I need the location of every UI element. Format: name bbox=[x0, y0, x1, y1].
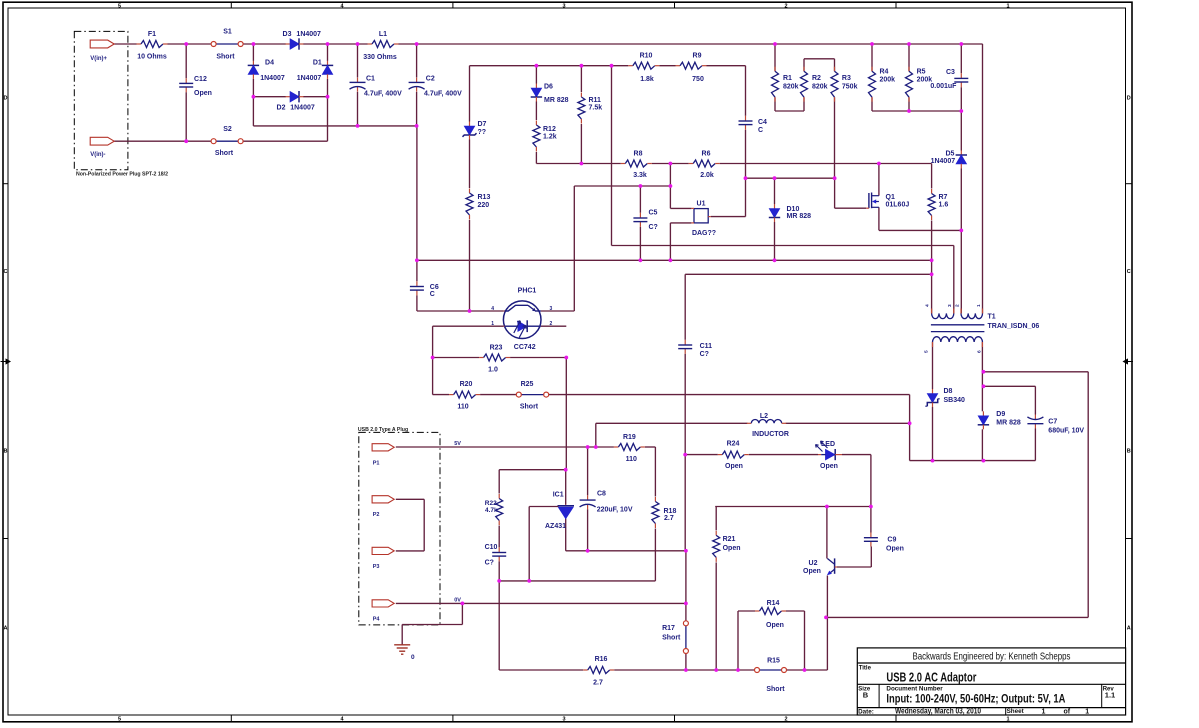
zone tick bbox=[3, 183, 8, 185]
svg-text:C12: C12 bbox=[194, 76, 207, 83]
svg-text:R5: R5 bbox=[917, 69, 926, 76]
transistor Q1 MOSFET bbox=[866, 193, 879, 209]
svg-text:R9: R9 bbox=[693, 53, 702, 60]
svg-text:Short: Short bbox=[215, 150, 234, 157]
wire bbox=[401, 625, 403, 645]
svg-text:U2: U2 bbox=[809, 560, 818, 567]
wire bbox=[327, 44, 329, 61]
svg-text:A: A bbox=[4, 626, 8, 632]
svg-text:110: 110 bbox=[457, 404, 468, 411]
svg-text:R23: R23 bbox=[490, 345, 503, 352]
svg-text:1N4007: 1N4007 bbox=[296, 31, 321, 38]
svg-text:R6: R6 bbox=[702, 150, 711, 157]
svg-text:Open: Open bbox=[886, 546, 904, 553]
plug pin V(in)+ bbox=[90, 40, 114, 48]
wire bbox=[499, 669, 583, 671]
junction bbox=[907, 109, 911, 113]
svg-text:1N4007: 1N4007 bbox=[290, 105, 315, 112]
wire bbox=[470, 65, 629, 67]
svg-text:Title: Title bbox=[859, 666, 872, 672]
svg-text:Open: Open bbox=[723, 545, 741, 552]
junction bbox=[825, 505, 829, 509]
wire bbox=[541, 310, 575, 312]
svg-text:C?: C? bbox=[649, 224, 658, 231]
svg-text:220uF, 10V: 220uF, 10V bbox=[597, 507, 633, 514]
junction bbox=[684, 602, 688, 606]
optocoupler PHC1 bbox=[503, 301, 541, 339]
svg-text:5: 5 bbox=[118, 3, 121, 9]
switch/short S2 bbox=[211, 139, 243, 144]
wire bbox=[243, 140, 327, 142]
resistor R18 bbox=[652, 497, 659, 528]
wire bbox=[499, 469, 566, 471]
svg-text:C: C bbox=[758, 127, 763, 134]
resistor R13 bbox=[466, 189, 473, 220]
schottky diode D8 bbox=[925, 389, 939, 407]
junction bbox=[527, 579, 531, 583]
capacitor C1 bbox=[350, 78, 366, 92]
svg-text:USB 2.0 AC Adaptor: USB 2.0 AC Adaptor bbox=[886, 670, 976, 684]
svg-text:4.7uF, 400V: 4.7uF, 400V bbox=[364, 91, 402, 98]
junction bbox=[580, 162, 584, 166]
wire bbox=[908, 97, 910, 111]
wire bbox=[433, 357, 480, 359]
wire bbox=[396, 550, 424, 552]
wire bbox=[871, 97, 873, 111]
svg-text:3: 3 bbox=[947, 304, 953, 307]
svg-text:Document Number: Document Number bbox=[886, 685, 943, 692]
wire bbox=[909, 395, 911, 461]
wire bbox=[535, 102, 537, 121]
svg-text:Open: Open bbox=[194, 90, 212, 97]
wire bbox=[684, 274, 686, 340]
svg-text:R24: R24 bbox=[727, 441, 740, 448]
wire bbox=[981, 342, 983, 411]
svg-text:Wednesday, March 03, 2010: Wednesday, March 03, 2010 bbox=[895, 706, 982, 715]
svg-text:T1: T1 bbox=[988, 314, 996, 321]
svg-text:R20: R20 bbox=[460, 381, 473, 388]
wire bbox=[931, 164, 933, 189]
wire bbox=[499, 580, 655, 582]
junction bbox=[744, 176, 748, 180]
wire bbox=[786, 610, 805, 612]
svg-text:680uF, 10V: 680uF, 10V bbox=[1048, 428, 1084, 435]
switch/short R17 bbox=[683, 621, 688, 654]
wire bbox=[432, 326, 434, 394]
wire bbox=[982, 44, 984, 313]
svg-text:B: B bbox=[863, 691, 869, 700]
wire bbox=[357, 44, 359, 77]
wire bbox=[253, 125, 416, 127]
svg-text:INDUCTOR: INDUCTOR bbox=[752, 431, 789, 438]
svg-text:U1: U1 bbox=[697, 201, 706, 208]
svg-text:A: A bbox=[1127, 626, 1131, 632]
junction bbox=[931, 459, 935, 463]
junction bbox=[326, 42, 330, 46]
wire bbox=[774, 44, 776, 71]
svg-text:C: C bbox=[4, 269, 8, 275]
wire bbox=[549, 394, 910, 396]
junction bbox=[684, 549, 688, 553]
wire bbox=[745, 130, 747, 178]
wire bbox=[580, 66, 582, 92]
junction bbox=[669, 184, 673, 188]
junction bbox=[586, 549, 590, 553]
wire bbox=[168, 43, 212, 45]
junction bbox=[833, 176, 837, 180]
wire bbox=[803, 59, 805, 71]
svg-text:D: D bbox=[1127, 96, 1131, 102]
svg-text:4: 4 bbox=[491, 306, 494, 312]
svg-text:10 Ohms: 10 Ohms bbox=[137, 54, 167, 61]
resistor R24 bbox=[718, 451, 749, 458]
svg-text:Q1: Q1 bbox=[886, 194, 895, 201]
wire bbox=[327, 79, 329, 97]
wire bbox=[670, 222, 691, 224]
wire bbox=[983, 385, 1035, 387]
svg-text:D10: D10 bbox=[787, 206, 800, 213]
svg-text:01L60J: 01L60J bbox=[886, 201, 910, 208]
svg-text:R2: R2 bbox=[812, 75, 821, 82]
wire bbox=[433, 325, 504, 327]
wire bbox=[774, 222, 776, 260]
wire bbox=[749, 454, 818, 456]
svg-text:Date:: Date: bbox=[858, 708, 874, 715]
svg-text:C8: C8 bbox=[597, 491, 606, 498]
wire bbox=[803, 97, 805, 111]
wire bbox=[960, 87, 962, 150]
junction bbox=[639, 258, 643, 262]
wire bbox=[983, 371, 1088, 373]
wire bbox=[842, 454, 871, 456]
junction bbox=[415, 124, 419, 128]
svg-text:USB 2.0 Type A Plug: USB 2.0 Type A Plug bbox=[358, 427, 408, 433]
svg-text:0: 0 bbox=[411, 654, 415, 661]
svg-text:R11: R11 bbox=[589, 97, 602, 104]
wire bbox=[574, 185, 670, 187]
svg-text:R15: R15 bbox=[767, 658, 780, 665]
wire bbox=[510, 357, 566, 359]
svg-text:DAG??: DAG?? bbox=[692, 230, 716, 237]
wire bbox=[837, 566, 871, 568]
junction bbox=[356, 42, 360, 46]
capacitor C12 bbox=[179, 78, 193, 92]
junction bbox=[639, 184, 643, 188]
switch/short R15 bbox=[755, 668, 787, 673]
resistor R21 bbox=[713, 531, 720, 562]
svg-text:1.2k: 1.2k bbox=[543, 134, 557, 141]
junction bbox=[869, 505, 873, 509]
wire bbox=[953, 246, 955, 314]
junction bbox=[959, 109, 963, 113]
svg-text:D8: D8 bbox=[944, 388, 953, 395]
svg-text:750k: 750k bbox=[842, 83, 858, 90]
wire bbox=[565, 358, 567, 470]
diode D3 bbox=[286, 38, 304, 49]
svg-text:C3: C3 bbox=[946, 69, 955, 76]
svg-text:4.7uF, 400V: 4.7uF, 400V bbox=[424, 91, 462, 98]
svg-text:Open: Open bbox=[766, 622, 784, 629]
zone tick bbox=[1126, 538, 1133, 540]
svg-text:P4: P4 bbox=[373, 616, 381, 622]
svg-text:D6: D6 bbox=[544, 84, 553, 91]
wire bbox=[185, 44, 187, 78]
wire bbox=[960, 44, 962, 73]
wire bbox=[707, 65, 746, 67]
wire bbox=[720, 163, 932, 165]
junction bbox=[184, 42, 188, 46]
wire bbox=[498, 526, 500, 548]
svg-text:1: 1 bbox=[1006, 716, 1009, 722]
svg-text:2: 2 bbox=[954, 304, 960, 307]
wire bbox=[303, 43, 367, 45]
svg-text:C10: C10 bbox=[485, 544, 498, 551]
resistor R1 bbox=[772, 67, 779, 102]
frame centre arrow left bbox=[1, 359, 11, 364]
wire bbox=[113, 140, 211, 142]
svg-text:??: ?? bbox=[478, 129, 487, 136]
zone tick bbox=[3, 538, 8, 540]
zone tick bbox=[230, 715, 232, 722]
wire bbox=[461, 603, 463, 624]
svg-text:D9: D9 bbox=[996, 411, 1005, 418]
wire bbox=[715, 562, 717, 670]
svg-text:3: 3 bbox=[562, 716, 565, 722]
wire bbox=[639, 227, 641, 260]
diode D4 bbox=[248, 61, 259, 79]
wire bbox=[252, 79, 254, 126]
svg-text:Open: Open bbox=[803, 568, 821, 575]
svg-text:C: C bbox=[1127, 269, 1131, 275]
capacitor C6 bbox=[410, 281, 424, 295]
wire bbox=[932, 342, 934, 389]
wire bbox=[804, 611, 806, 670]
wire bbox=[835, 207, 867, 209]
junction bbox=[930, 258, 934, 262]
zone tick bbox=[230, 2, 232, 8]
svg-text:820k: 820k bbox=[812, 83, 828, 90]
svg-text:C?: C? bbox=[485, 560, 494, 567]
plug pin P2 bbox=[372, 496, 394, 503]
resistor R8 bbox=[621, 160, 652, 167]
wire bbox=[565, 519, 567, 551]
junction bbox=[959, 42, 963, 46]
wire bbox=[565, 470, 567, 505]
wire bbox=[573, 186, 575, 311]
svg-text:R7: R7 bbox=[939, 194, 948, 201]
junction bbox=[982, 459, 986, 463]
capacitor C8 bbox=[580, 495, 596, 509]
wire bbox=[480, 394, 516, 396]
wire bbox=[185, 92, 187, 141]
svg-text:5: 5 bbox=[923, 350, 929, 353]
junction bbox=[415, 258, 419, 262]
capacitor C11 bbox=[678, 340, 692, 354]
zone tick bbox=[674, 715, 676, 722]
resistor R11 bbox=[578, 93, 585, 124]
svg-text:2.0k: 2.0k bbox=[700, 172, 714, 179]
resistor R16 bbox=[583, 667, 614, 674]
svg-text:Open: Open bbox=[820, 463, 838, 470]
wire bbox=[243, 43, 286, 45]
wire bbox=[804, 58, 835, 60]
junction bbox=[736, 668, 740, 672]
svg-text:6: 6 bbox=[976, 350, 982, 353]
wire bbox=[469, 66, 471, 122]
wire bbox=[654, 529, 656, 581]
svg-text:1.0: 1.0 bbox=[488, 367, 498, 374]
wire bbox=[774, 97, 776, 111]
junction bbox=[594, 445, 598, 449]
wire bbox=[528, 507, 530, 581]
shunt regulator IC1 AZ431 bbox=[529, 505, 574, 519]
ic U1 DAG bbox=[691, 208, 710, 223]
wire bbox=[774, 178, 776, 204]
wire bbox=[433, 394, 450, 396]
svg-text:2: 2 bbox=[784, 716, 787, 722]
junction bbox=[610, 64, 614, 68]
svg-text:R18: R18 bbox=[664, 508, 677, 515]
wire bbox=[639, 186, 641, 213]
wire bbox=[614, 669, 754, 671]
wire bbox=[684, 354, 686, 551]
svg-text:R21: R21 bbox=[723, 536, 736, 543]
resistor R5 bbox=[906, 67, 913, 102]
junction bbox=[907, 42, 911, 46]
transistor U2 bbox=[827, 558, 837, 575]
svg-text:5V: 5V bbox=[454, 441, 461, 447]
svg-text:MR 828: MR 828 bbox=[996, 420, 1021, 427]
svg-text:PHC1: PHC1 bbox=[518, 288, 537, 295]
svg-text:Short: Short bbox=[662, 635, 681, 642]
capacitor C10 bbox=[492, 547, 506, 561]
wire bbox=[587, 447, 589, 495]
resistor R12 bbox=[533, 121, 540, 152]
junction bbox=[824, 616, 828, 620]
wire bbox=[402, 624, 462, 626]
svg-text:4: 4 bbox=[925, 304, 931, 307]
LED D11 bbox=[816, 441, 843, 460]
plug pin P1 bbox=[372, 444, 394, 451]
junction bbox=[982, 370, 986, 374]
wire bbox=[113, 43, 137, 45]
svg-text:C11: C11 bbox=[700, 343, 713, 350]
wire bbox=[715, 507, 717, 531]
svg-text:C1: C1 bbox=[366, 76, 375, 83]
wire bbox=[498, 561, 500, 670]
svg-text:TRAN_ISDN_06: TRAN_ISDN_06 bbox=[988, 323, 1040, 330]
wire bbox=[536, 163, 620, 165]
wire bbox=[535, 152, 537, 164]
svg-text:C4: C4 bbox=[758, 119, 767, 126]
wire bbox=[396, 602, 686, 604]
resistor F1 bbox=[137, 41, 168, 48]
wire bbox=[327, 97, 329, 142]
junction bbox=[252, 95, 256, 99]
wire bbox=[872, 110, 961, 112]
svg-text:R1: R1 bbox=[783, 75, 792, 82]
USB plug enclosure box bbox=[359, 432, 440, 625]
svg-text:R8: R8 bbox=[634, 150, 643, 157]
svg-text:330 Ohms: 330 Ohms bbox=[363, 54, 397, 61]
wire bbox=[1034, 429, 1036, 461]
svg-text:Non-Polarized Power Plug SPT-2: Non-Polarized Power Plug SPT-2 18/2 bbox=[76, 172, 168, 178]
svg-text:V(in)-: V(in)- bbox=[90, 152, 105, 158]
wire bbox=[834, 178, 836, 208]
svg-text:R25: R25 bbox=[521, 381, 534, 388]
wire bbox=[652, 163, 689, 165]
junction bbox=[497, 579, 501, 583]
wire bbox=[587, 509, 589, 551]
svg-text:Short: Short bbox=[216, 54, 235, 61]
svg-text:Input: 100-240V, 50-60Hz; Outp: Input: 100-240V, 50-60Hz; Output: 5V, 1A bbox=[886, 694, 1065, 706]
wire bbox=[879, 229, 961, 231]
wire bbox=[870, 455, 872, 507]
wire bbox=[737, 611, 739, 670]
wire bbox=[878, 164, 880, 196]
junction bbox=[326, 95, 330, 99]
junction bbox=[252, 42, 256, 46]
wire bbox=[1034, 386, 1036, 414]
svg-text:R22: R22 bbox=[485, 500, 497, 507]
wire bbox=[685, 273, 931, 275]
junction bbox=[415, 42, 419, 46]
svg-text:P2: P2 bbox=[373, 512, 380, 518]
wire bbox=[715, 506, 871, 508]
svg-text:Sheet: Sheet bbox=[1007, 708, 1025, 715]
wire bbox=[775, 110, 804, 112]
wire bbox=[252, 44, 254, 61]
junction bbox=[669, 162, 673, 166]
transformer T1 bbox=[931, 309, 985, 348]
resistor R14 bbox=[755, 608, 786, 615]
wire bbox=[981, 429, 983, 460]
resistor R22 bbox=[496, 494, 503, 525]
wire bbox=[654, 447, 656, 497]
junction bbox=[684, 668, 688, 672]
zone tick bbox=[674, 2, 676, 8]
ground 0 bbox=[394, 645, 410, 654]
svg-text:7.5k: 7.5k bbox=[589, 105, 603, 112]
wire bbox=[659, 65, 675, 67]
wire bbox=[908, 44, 910, 71]
wire bbox=[498, 470, 500, 494]
wire bbox=[469, 220, 471, 311]
wire bbox=[745, 178, 747, 216]
power plug enclosure box bbox=[74, 31, 128, 169]
wire bbox=[535, 66, 537, 84]
wire bbox=[645, 446, 656, 448]
wire bbox=[423, 499, 425, 551]
zone tick bbox=[895, 715, 897, 722]
switch/short R25 bbox=[516, 392, 548, 397]
diode D10 bbox=[769, 204, 780, 222]
wire bbox=[685, 454, 718, 456]
wire bbox=[566, 550, 686, 552]
svg-text:3: 3 bbox=[550, 306, 553, 312]
wire bbox=[932, 407, 934, 461]
svg-text:C5: C5 bbox=[649, 210, 658, 217]
svg-text:Backwards Engineered by: Kenne: Backwards Engineered by: Kenneth Schepps bbox=[913, 651, 1071, 662]
wire bbox=[826, 576, 828, 671]
svg-text:D1: D1 bbox=[313, 60, 322, 67]
wire bbox=[595, 423, 597, 447]
svg-text:200k: 200k bbox=[880, 77, 896, 84]
junction bbox=[356, 124, 360, 128]
svg-text:CC742: CC742 bbox=[514, 344, 536, 351]
svg-text:5: 5 bbox=[118, 716, 121, 722]
resistor R7 bbox=[928, 189, 935, 220]
